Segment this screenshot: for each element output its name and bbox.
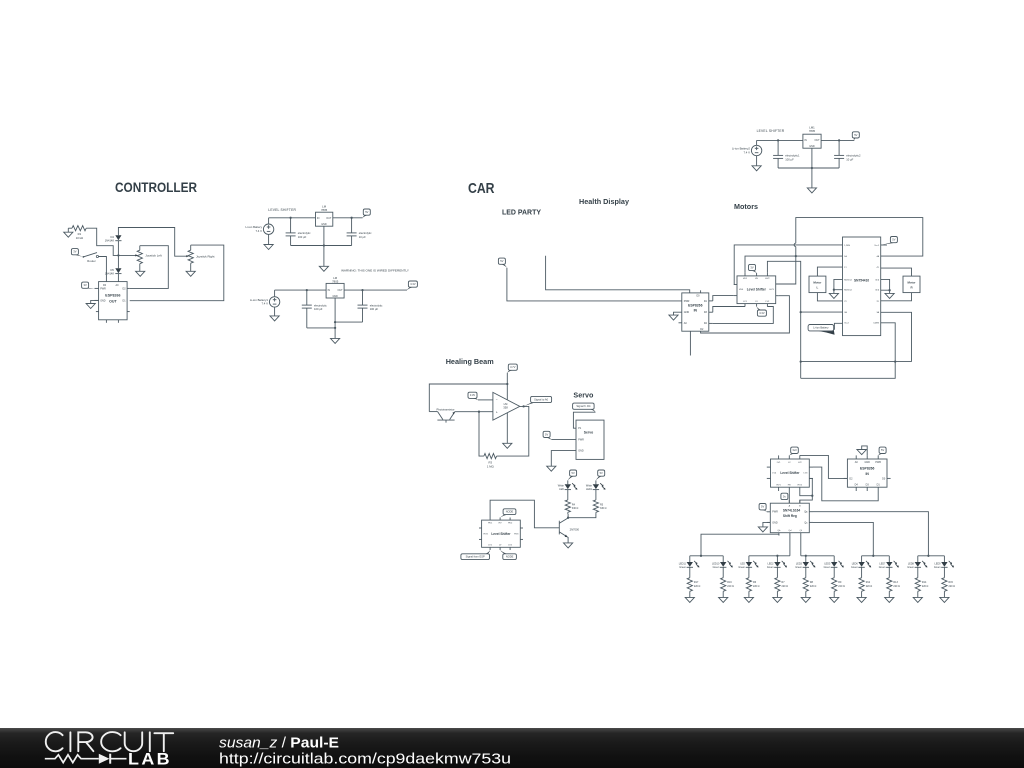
svg-text:Signal from ESP: Signal from ESP xyxy=(466,555,485,559)
wire bottom loop h2 xyxy=(801,362,896,379)
junction bottom loop x riser xyxy=(800,360,802,362)
net flag 5V output 1 xyxy=(363,209,371,218)
diode D4 1N4148 xyxy=(105,235,122,243)
wire Vcc1 stub xyxy=(881,244,887,246)
wire input rail 1 xyxy=(269,217,316,219)
svg-text:7.4 V: 7.4 V xyxy=(261,302,268,306)
svg-text:M1/Gnd: M1/Gnd xyxy=(844,279,852,281)
CircuitLab logo text LAB xyxy=(128,751,172,768)
svg-text:OUT: OUT xyxy=(109,299,117,303)
wire servo signal wire xyxy=(573,412,595,428)
svg-text:220 Ω: 220 Ω xyxy=(782,585,789,588)
wire R1 left lead xyxy=(68,227,72,229)
svg-text:R12: R12 xyxy=(866,581,871,584)
wire stub to ESP IN D0 xyxy=(546,256,690,293)
wire battery V2 bottom lead xyxy=(274,307,276,316)
ground for R1 xyxy=(64,228,73,237)
junction pair LED 3-4 feed xyxy=(776,555,778,557)
svg-text:GND: GND xyxy=(772,521,778,524)
net flag 5V white LED 1 xyxy=(568,470,577,480)
ground for LED9 xyxy=(940,597,949,602)
label LEVEL SHIFTER car xyxy=(757,129,785,133)
svg-text:220 Ω: 220 Ω xyxy=(753,585,760,588)
svg-text:D5: D5 xyxy=(110,268,114,272)
wire Q2 collector xyxy=(567,514,570,518)
svg-text:3,4EN: 3,4EN xyxy=(873,323,879,325)
svg-text:PWR: PWR xyxy=(875,461,881,464)
LED LED3 green xyxy=(795,561,815,569)
IC body motor Motor L xyxy=(809,276,826,293)
IC body motor driver U8 SN754410 xyxy=(843,237,881,336)
ground for battery V3 xyxy=(752,166,761,171)
net flag 5V white LED 2 xyxy=(596,470,605,480)
resistor R5 330 xyxy=(593,500,606,512)
svg-text:7.4 V: 7.4 V xyxy=(255,229,262,233)
net flag 3V at U7 xyxy=(749,264,757,273)
battery V3 Li-ion Battery2 7.4V xyxy=(732,145,762,155)
wire net Qd run xyxy=(789,536,791,556)
wire Joystick Left top lead xyxy=(139,246,141,251)
wire R3 to + node xyxy=(479,412,484,456)
svg-text:100 µF: 100 µF xyxy=(785,157,794,161)
svg-text:Motor: Motor xyxy=(813,281,822,285)
svg-text:220 Ω: 220 Ω xyxy=(810,585,817,588)
net flag 5V at ESP U12 PWR xyxy=(878,447,886,455)
wire bottom loop h1 xyxy=(801,361,912,363)
wire LED to R6 xyxy=(748,567,750,577)
capacitor C1 electrolytic 100uF xyxy=(286,218,312,246)
svg-text:IN: IN xyxy=(317,217,320,220)
svg-text:NODE: NODE xyxy=(506,555,514,559)
svg-text:Servo: Servo xyxy=(573,391,593,400)
junction cap C2 top xyxy=(350,217,352,219)
svg-text:220 Ω: 220 Ω xyxy=(949,585,956,588)
label WARNING xyxy=(341,269,409,273)
svg-text:ESP8266: ESP8266 xyxy=(105,293,120,297)
svg-text:Motors: Motors xyxy=(734,202,758,211)
ground for U8 right xyxy=(885,290,894,298)
wire R12 to gnd xyxy=(861,591,863,597)
svg-text:HV: HV xyxy=(499,522,503,524)
ESP IN U6 pin stubs xyxy=(679,290,713,323)
net flag 5V LED party xyxy=(498,258,507,268)
IC body regulator U9 LM1 7805 xyxy=(803,134,821,148)
wire net Qf run xyxy=(800,536,802,556)
svg-text:LEVEL SHIFTER: LEVEL SHIFTER xyxy=(268,208,296,212)
wire input rail 2 xyxy=(275,289,327,291)
svg-text:358: 358 xyxy=(503,406,508,410)
svg-text:5V: 5V xyxy=(545,432,548,436)
ground for servo xyxy=(547,466,556,471)
svg-text:220 Ω: 220 Ω xyxy=(893,585,900,588)
wire Joystick Right top lead xyxy=(190,245,192,250)
wire top rail to Joystick Right wiper xyxy=(118,228,186,257)
svg-text:R15: R15 xyxy=(949,581,954,584)
wire pair LED 9-10 rail xyxy=(918,555,945,557)
wire LED3 anode drop xyxy=(805,556,807,562)
capacitor C3 electrolytic 100uF xyxy=(302,290,328,328)
ESP8266 OUT pin stubs xyxy=(95,288,130,322)
svg-text:R14: R14 xyxy=(922,581,927,584)
wire LED8 anode drop xyxy=(917,556,919,562)
wire LED6 to R12 xyxy=(861,567,863,577)
wire net D1 to U7 xyxy=(713,296,734,301)
ground for regulator U9 xyxy=(807,188,816,193)
wire pair LED 5-6 rail xyxy=(801,555,834,557)
svg-text:220 Ω: 220 Ω xyxy=(727,585,734,588)
net flag 5V output 3 xyxy=(852,132,859,141)
svg-text:Green: Green xyxy=(851,566,858,569)
junction B riser junction xyxy=(811,495,813,497)
resistor R17 220 xyxy=(687,578,700,592)
LED LED6 green xyxy=(851,561,871,569)
svg-text:PWR: PWR xyxy=(100,287,106,290)
svg-text:5V: 5V xyxy=(881,448,884,452)
wire LED7 anode drop xyxy=(888,556,890,562)
wire pair LED 1-2 rail xyxy=(690,555,723,557)
svg-text:electrolytic: electrolytic xyxy=(359,231,372,235)
ground for Joystick Right xyxy=(186,271,195,276)
level shifter U11 pin stubs xyxy=(767,455,813,491)
wire LED11 to R17 xyxy=(689,567,691,577)
op-amp V- pin xyxy=(506,413,508,443)
ground for regulator U4 xyxy=(319,266,328,271)
svg-text:5V: 5V xyxy=(500,259,503,263)
wire collector rail xyxy=(429,384,507,412)
resistor R9 220 xyxy=(832,578,845,592)
net flag 3.3V output 2 xyxy=(407,281,417,290)
LED LED green xyxy=(738,561,758,569)
svg-text:R7: R7 xyxy=(782,581,786,584)
svg-text:3V: 3V xyxy=(750,265,753,269)
wire LED2 anode drop xyxy=(776,556,778,562)
wire input rail 3 xyxy=(757,139,803,141)
svg-text:GND: GND xyxy=(865,461,871,464)
svg-text:330 Ω: 330 Ω xyxy=(600,507,607,510)
LED LED7 green xyxy=(879,561,899,569)
wire net D3 to U7 xyxy=(713,307,745,313)
wire R6 to gnd xyxy=(748,591,750,597)
wire Joystick Left to D2 xyxy=(130,246,169,289)
svg-text:1N4148: 1N4148 xyxy=(105,239,115,243)
svg-text:220 Ω: 220 Ω xyxy=(694,585,701,588)
IC body ESP8266 IN U12 (health) xyxy=(847,459,887,487)
svg-text:220 Ω: 220 Ω xyxy=(838,585,845,588)
ESP IN U12 pin stubs xyxy=(844,455,891,491)
svg-text:D4: D4 xyxy=(110,235,114,239)
svg-text:LED PARTY: LED PARTY xyxy=(502,208,541,217)
wire net HV1 to 2A xyxy=(767,261,842,312)
svg-text:100 µF: 100 µF xyxy=(298,235,307,239)
net flag 3V at switch xyxy=(71,249,83,257)
svg-text:R6: R6 xyxy=(753,581,757,584)
svg-text:−: − xyxy=(496,398,498,402)
wire servo GND wire xyxy=(551,451,576,467)
wire pair LED 3-4 rail xyxy=(749,555,790,557)
shift register U13 labels xyxy=(772,505,808,532)
svg-text:5V: 5V xyxy=(854,133,857,137)
wire 3.3V to op-amp - xyxy=(478,399,493,401)
svg-text:10 µF: 10 µF xyxy=(846,157,853,161)
svg-text:Green: Green xyxy=(907,566,914,569)
svg-text:R8: R8 xyxy=(810,581,814,584)
heading Servo xyxy=(573,391,593,400)
wire net 3A xyxy=(881,312,912,361)
junction cap C3 top xyxy=(306,289,308,291)
svg-text:Router: Router xyxy=(87,259,95,263)
IC body servo M3 Servo xyxy=(576,420,604,459)
ESP8266 OUT labels xyxy=(100,284,126,303)
LED LED10 green xyxy=(712,561,733,569)
resistor R14 220 xyxy=(915,578,928,592)
net flag 3V at ESP OUT PWR xyxy=(82,282,95,288)
resistor R1 xyxy=(72,226,86,240)
regulator U5 GND pin xyxy=(334,298,336,338)
wire cap C4 bottom to gnd pin xyxy=(335,321,362,323)
wire white LED 1 top xyxy=(567,480,569,484)
ground for Q2 xyxy=(564,543,573,548)
svg-text:CAR: CAR xyxy=(468,180,495,197)
op-amp U2 LM358 xyxy=(493,392,520,420)
wire R14 to gnd xyxy=(917,591,919,597)
regulator U9 labels xyxy=(804,125,820,148)
wire LED9 to R15 xyxy=(943,567,945,577)
svg-text:R17: R17 xyxy=(694,581,699,584)
wire switch to D0 xyxy=(99,257,107,282)
junction cap C5 top xyxy=(777,139,779,141)
wire white LED1 branch join xyxy=(568,514,596,518)
junction 2A junction xyxy=(800,311,802,313)
svg-text:GND: GND xyxy=(100,299,106,302)
svg-text:3V: 3V xyxy=(73,250,76,254)
wire net 1Y to Motor L xyxy=(817,267,842,276)
capacitor C5 electrolytic1 100uF xyxy=(773,140,800,168)
svg-text:Phototransistor: Phototransistor xyxy=(436,408,454,412)
IC body level shifter U11 (health) xyxy=(771,459,810,487)
wire net Motor L to 2Y xyxy=(817,293,842,301)
wire bottom rail 1 xyxy=(291,245,352,247)
junction LED branch join xyxy=(567,517,569,519)
svg-text:M1/Gnd: M1/Gnd xyxy=(844,290,852,292)
heading Healing Beam xyxy=(446,357,494,366)
wire LED3 to R8 xyxy=(805,567,807,577)
wire R13 to gnd xyxy=(888,591,890,597)
wire ESP OUT GND xyxy=(91,300,99,303)
net flag 5V at U8 Vcc1 xyxy=(881,237,898,246)
svg-text:5V: 5V xyxy=(600,471,603,475)
wire pair LED 7-8 rail xyxy=(862,555,890,557)
svg-text:3V: 3V xyxy=(84,283,87,287)
wire net 1A xyxy=(745,256,843,273)
svg-text:CONTROLLER: CONTROLLER xyxy=(115,180,197,196)
regulator U4 GND pin xyxy=(323,226,325,266)
svg-text:Level Shifter: Level Shifter xyxy=(780,471,800,475)
svg-text:electrolytic: electrolytic xyxy=(314,303,327,307)
wire cap C3 bottom to gnd pin xyxy=(307,327,335,329)
junction pair LED 5-6 feed xyxy=(805,555,807,557)
LED LED9 green xyxy=(934,561,954,569)
svg-text:Signal fr. D4: Signal fr. D4 xyxy=(576,404,591,408)
junction output flag tap xyxy=(522,405,524,407)
svg-text:Joystick Left: Joystick Left xyxy=(145,254,162,258)
regulator U9 GND pin xyxy=(811,148,813,188)
resistor R16 220 xyxy=(721,578,734,592)
wire white LED 1 mid xyxy=(567,490,569,500)
svg-text:Li-ion Battery: Li-ion Battery xyxy=(813,326,829,330)
wire LED11 anode drop xyxy=(689,556,691,562)
level shifter U11 labels xyxy=(772,462,808,487)
LED LED11 green xyxy=(679,561,700,569)
svg-text:100 µF: 100 µF xyxy=(314,307,323,311)
svg-text:L: L xyxy=(817,285,819,289)
svg-text:electrolytic1: electrolytic1 xyxy=(785,154,800,158)
svg-text:LED1: LED1 xyxy=(586,488,593,491)
wire bottom rail 3 xyxy=(778,167,839,169)
wire LED10 anode drop xyxy=(722,556,724,562)
ground for LED7 xyxy=(885,597,894,602)
wire 3.7V riser xyxy=(506,373,508,400)
capacitor C4 electrolytic 100uF xyxy=(358,290,384,322)
svg-text:IN: IN xyxy=(694,309,698,313)
net flag 3.7V healing xyxy=(507,364,517,373)
switch SW1 Router xyxy=(83,253,99,263)
net flag Signal fr. D4 xyxy=(573,403,596,412)
svg-text:7805: 7805 xyxy=(321,208,328,212)
net flag 5V at U13 PWR xyxy=(759,504,767,512)
svg-text:PWR: PWR xyxy=(772,511,778,514)
wire net 4Y to Motor R xyxy=(881,268,912,276)
wire net U11 LV2 to ESP D2 xyxy=(800,455,848,478)
junction right gnd loop xyxy=(888,289,890,291)
wire output rail 3 xyxy=(821,139,854,141)
wire white LED 2 bottom xyxy=(595,512,597,514)
CircuitLab logo resistor squiggle xyxy=(45,755,99,763)
svg-text:1,2EN: 1,2EN xyxy=(844,245,850,247)
wire net Qc xyxy=(813,522,873,555)
regulator U5 labels xyxy=(328,276,344,298)
wire net D4 to U7 xyxy=(713,307,774,324)
wire battery V3 bottom lead xyxy=(756,156,758,166)
junction cap C1 top xyxy=(289,217,291,219)
svg-text:LED: LED xyxy=(559,488,564,491)
wire U10 to transistor base xyxy=(490,500,559,528)
net flag Li-ion Battery at Vcc2 xyxy=(808,323,842,334)
svg-text:OUT: OUT xyxy=(326,217,332,220)
wire Joystick Right bottom lead xyxy=(190,263,192,271)
IC body level shifter U7 (motors) xyxy=(737,276,776,304)
svg-text:220 Ω: 220 Ω xyxy=(866,585,873,588)
svg-text:GND: GND xyxy=(332,295,338,298)
junction 1A x HV2 riser xyxy=(795,255,797,257)
resistor R8 220 xyxy=(803,578,816,592)
ground for U13 xyxy=(758,527,767,532)
wire U13 GND xyxy=(763,522,770,527)
wire net Motor R to 3Y xyxy=(881,293,912,301)
junction cap C6 top xyxy=(838,139,840,141)
svg-text:5V: 5V xyxy=(572,471,575,475)
svg-text:R13: R13 xyxy=(893,581,898,584)
wire LED6 anode drop xyxy=(861,556,863,562)
svg-text:PWR: PWR xyxy=(684,300,690,303)
ground for LED11 xyxy=(685,597,694,602)
svg-text:Healing Beam: Healing Beam xyxy=(446,357,494,366)
ground for ESP OUT xyxy=(86,304,95,309)
junction gnd rail 1 xyxy=(323,244,325,246)
svg-text:PWR: PWR xyxy=(578,439,584,442)
wire R16 to gnd xyxy=(722,591,724,597)
resistor R6 220 xyxy=(746,578,759,592)
wire white LED 2 top xyxy=(595,480,597,484)
svg-text:7805: 7805 xyxy=(332,280,339,284)
heading CONTROLLER xyxy=(115,180,197,196)
svg-text:Green: Green xyxy=(934,566,941,569)
wire Q2 emitter to gnd xyxy=(567,537,570,543)
svg-text:7805: 7805 xyxy=(809,129,816,133)
diode D5 1N4148 xyxy=(105,268,122,276)
wire ESP IN U6 GND xyxy=(674,312,682,315)
wire Joystick Left bottom lead xyxy=(139,264,141,272)
svg-text:3.7V: 3.7V xyxy=(510,365,516,369)
wire net U11 LV to ESP D1 xyxy=(813,467,878,501)
wire battery V3 top lead xyxy=(756,140,758,145)
svg-text:GND: GND xyxy=(578,449,584,452)
svg-text:SN754410: SN754410 xyxy=(854,278,869,282)
svg-text:5V: 5V xyxy=(365,210,368,214)
wire LED5 to R9 xyxy=(833,567,835,577)
wire R8 to gnd xyxy=(805,591,807,597)
footer username and title xyxy=(219,734,339,751)
resistor R13 220 xyxy=(887,578,900,592)
svg-text:IN: IN xyxy=(804,139,807,142)
battery V2 Li-ion Battery1 7.4V xyxy=(250,297,280,307)
ground for U8 left xyxy=(829,290,838,299)
ESP IN U6 labels xyxy=(684,295,708,331)
wire net HV2 to 4A xyxy=(776,218,923,284)
wire R17 to gnd xyxy=(689,591,691,597)
wire 2A riser down xyxy=(800,312,802,378)
ground for LED3 xyxy=(801,597,810,602)
capacitor C6 electrolytic2 10uF xyxy=(834,140,861,168)
svg-text:220 Ω: 220 Ω xyxy=(922,585,929,588)
junction bottom loop x 3,4EN xyxy=(894,360,896,362)
junction gnd rail 3 xyxy=(811,167,813,169)
label LEVEL SHIFTER xyxy=(268,208,296,212)
LED LED2 green xyxy=(767,561,787,569)
wire net Qb run xyxy=(701,534,779,556)
Motor R label xyxy=(907,281,916,290)
wire net U11 to shiftreg B xyxy=(800,478,813,503)
net flag NODE bottom xyxy=(500,550,516,560)
junction pair LED 7-8 feed xyxy=(872,555,874,557)
svg-text:HV: HV xyxy=(788,485,792,487)
ground for battery V2 xyxy=(270,316,279,321)
ground for LED8 xyxy=(913,597,922,602)
capacitor C2 electrolytic 10uF xyxy=(347,218,373,246)
svg-text:5V: 5V xyxy=(761,505,764,509)
svg-text:2N7000: 2N7000 xyxy=(570,527,580,531)
level shifter U7 pin stubs xyxy=(734,273,779,307)
wire Joystick Right to D1 xyxy=(130,245,224,301)
svg-text:OUT: OUT xyxy=(338,289,344,292)
svg-text:GND: GND xyxy=(684,311,690,314)
svg-text:GND: GND xyxy=(321,223,327,226)
svg-text:IN: IN xyxy=(865,472,869,476)
svg-text:electrolytic: electrolytic xyxy=(298,231,311,235)
junction pair LED 1-2 feed xyxy=(700,555,702,557)
ground above ESP IN U12 (inverted) xyxy=(857,446,867,456)
heading CAR xyxy=(468,180,495,197)
svg-text:7.4 V: 7.4 V xyxy=(743,150,750,154)
